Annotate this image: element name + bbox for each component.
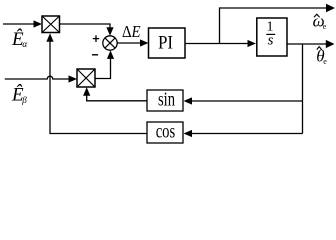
svg-text:sin: sin	[158, 88, 175, 109]
wire sin to M2	[83, 87, 147, 101]
block sin	[147, 88, 183, 111]
wire theta feedback vertical	[302, 44, 304, 134]
svg-text:s: s	[268, 33, 274, 49]
svg-text:β: β	[21, 95, 27, 105]
multiplier M2	[77, 69, 95, 87]
svg-text:e: e	[323, 22, 327, 31]
wire theta to cos	[184, 130, 303, 137]
wire cos to M1	[46, 33, 147, 133]
plus sign	[93, 35, 99, 42]
wire Ê_beta input (with hop over cos line)	[5, 75, 77, 82]
wire Ê_alpha input	[3, 20, 42, 27]
block PI	[149, 28, 186, 58]
label Ê_alpha	[11, 28, 28, 50]
svg-text:ΔE: ΔE	[122, 23, 141, 41]
label ω̂_e	[313, 12, 327, 31]
block cos	[147, 120, 183, 143]
block integrator 1/s	[257, 18, 287, 56]
svg-text:PI: PI	[158, 32, 173, 53]
wire PI to integrator	[185, 40, 256, 47]
wire M1 to summer	[60, 24, 114, 36]
wire integrator out (theta)	[287, 40, 335, 48]
svg-text:e: e	[323, 57, 327, 66]
minus sign	[92, 54, 98, 56]
wire summer to PI	[117, 39, 148, 46]
multiplier M1	[42, 16, 60, 33]
wire M2 to summer minus input	[95, 50, 114, 78]
svg-text:cos: cos	[156, 120, 176, 141]
wire omega branch	[220, 4, 336, 44]
summing junction	[103, 36, 117, 50]
wire theta to sin	[184, 97, 303, 104]
label Ê_beta	[11, 83, 27, 105]
label θ̂_e	[316, 47, 327, 66]
